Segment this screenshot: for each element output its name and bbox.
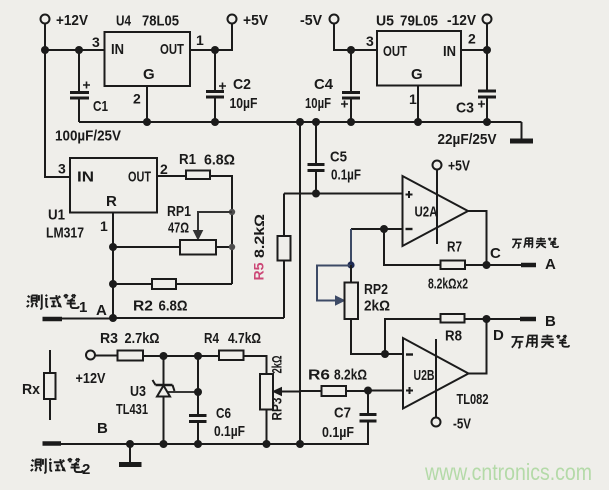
wire blue node to RP2: [350, 265, 352, 282]
svg-text:0.1µF: 0.1µF: [331, 167, 361, 184]
svg-text:C5: C5: [330, 149, 347, 166]
svg-text:C7: C7: [334, 405, 351, 422]
svg-text:C: C: [490, 245, 501, 262]
wire U2A inverting input: [351, 228, 403, 230]
node junction at +12V rail: [41, 46, 49, 54]
svg-text:C6: C6: [216, 405, 231, 422]
svg-text:OUT: OUT: [128, 169, 151, 186]
svg-text:79L05: 79L05: [400, 13, 438, 30]
svg-text:U5: U5: [376, 13, 394, 30]
svg-text:+12V: +12V: [76, 370, 106, 387]
wire +12V to U4 IN: [45, 49, 105, 51]
node C2 rail: [211, 118, 219, 126]
regulator U4 78L05: [92, 13, 204, 107]
node R8 feedback tap: [381, 350, 389, 358]
probe bar B: [520, 317, 536, 322]
capacitor C7: [300, 391, 377, 445]
node R pin RP1: [109, 243, 117, 251]
node feedback tap: [380, 225, 388, 233]
resistor R8: [441, 314, 465, 345]
terminal -5V U2B: [432, 416, 472, 433]
svg-text:2: 2: [133, 91, 141, 107]
node U3 ref C6: [194, 388, 202, 396]
capacitor C3: [438, 50, 497, 148]
label 万用表笔 A row: [512, 237, 558, 247]
svg-text:1: 1: [409, 91, 417, 107]
svg-text:R3: R3: [100, 330, 118, 347]
svg-text:U2A: U2A: [415, 204, 438, 221]
svg-text:Rx: Rx: [22, 381, 41, 398]
wire U2A power pin: [436, 170, 438, 245]
svg-text:C1: C1: [93, 98, 108, 115]
svg-text:B: B: [545, 313, 556, 330]
svg-text:R4: R4: [204, 330, 220, 347]
node C5 bottom: [312, 190, 320, 198]
svg-text:C2: C2: [233, 76, 251, 93]
resistor R7: [428, 239, 468, 293]
label 万用表笔 B row: [511, 335, 569, 348]
svg-text:3: 3: [366, 33, 374, 49]
ground symbol top right: [510, 122, 533, 141]
svg-text:A: A: [545, 256, 556, 273]
capacitor C4: [305, 50, 360, 122]
node rail bottom: [296, 440, 304, 448]
svg-text:1: 1: [100, 218, 108, 234]
wire R8 right to node D: [465, 318, 487, 320]
svg-text:3: 3: [92, 34, 100, 50]
node A: [109, 314, 117, 322]
svg-text:OUT: OUT: [383, 43, 407, 60]
wire +12V to R3: [95, 355, 118, 357]
node blue junction: [347, 261, 354, 268]
node C1 top: [75, 46, 83, 54]
wire U1 OUT to R1: [157, 175, 186, 177]
svg-text:R5: R5: [251, 262, 267, 280]
svg-text:B: B: [97, 420, 108, 437]
capacitor C1: [55, 50, 121, 145]
svg-text:2: 2: [468, 31, 476, 47]
node RP1 right: [229, 244, 235, 250]
svg-text:A: A: [96, 302, 107, 319]
node D: [483, 315, 491, 323]
op-amp U2B: [403, 338, 469, 409]
wire U4 G pin to rail: [146, 86, 148, 122]
svg-text:C4: C4: [314, 76, 334, 93]
svg-text:0.1µF: 0.1µF: [214, 423, 245, 440]
svg-text:G: G: [143, 66, 155, 83]
ground rail horizontal: [79, 121, 522, 123]
wire U2B power pin: [435, 339, 437, 418]
node U4 G rail: [143, 118, 151, 126]
svg-text:R6: R6: [308, 367, 330, 384]
wire feedback down to R7: [384, 229, 441, 265]
svg-text:D: D: [493, 327, 504, 344]
potentiometer RP2: [345, 281, 391, 319]
svg-text:78L05: 78L05: [142, 13, 179, 30]
svg-text:-12V: -12V: [447, 12, 476, 29]
test pen 1 probe bar: [43, 317, 63, 322]
node C4 rail: [347, 118, 355, 126]
node C3 top: [483, 46, 491, 54]
svg-text:47Ω: 47Ω: [168, 220, 189, 237]
wire U5 IN to -12V: [461, 24, 487, 51]
svg-text:R7: R7: [447, 239, 462, 256]
svg-text:RP1: RP1: [167, 203, 191, 220]
svg-text:2.7kΩ: 2.7kΩ: [125, 330, 160, 347]
wire -5V to U5 OUT: [334, 24, 377, 51]
terminal +12V bottom: [76, 351, 106, 388]
node U3 rail: [160, 440, 168, 448]
svg-text:R: R: [106, 193, 117, 210]
svg-text:6.8Ω: 6.8Ω: [204, 152, 235, 169]
wire RP1 left to R pin: [113, 246, 180, 248]
bottom rail: [60, 443, 368, 445]
svg-text:22µF/25V: 22µF/25V: [438, 131, 497, 148]
wire inv input to RP2 top: [350, 229, 352, 265]
wire R4 to RP3: [244, 356, 267, 374]
wire RP3 bottom to rail: [266, 410, 268, 445]
svg-text:10µF: 10µF: [305, 95, 331, 112]
node U5 G rail: [414, 118, 422, 126]
node U3 top: [160, 352, 168, 360]
label 测试笔1: [27, 294, 88, 316]
wire node D to probe B: [487, 318, 521, 320]
resistor R5 vertical: [278, 194, 291, 319]
capacitor C5: [308, 122, 362, 194]
svg-text:+12V: +12V: [56, 12, 88, 29]
RP2 wiper arrow: [317, 266, 351, 306]
potentiometer RP3: [260, 374, 273, 410]
node RP1 wiper tap: [229, 209, 235, 215]
node rail top: [296, 118, 304, 126]
svg-text:1: 1: [79, 299, 87, 316]
svg-text:6.8Ω: 6.8Ω: [159, 298, 188, 315]
node C4 top: [347, 46, 355, 54]
node C6 top: [194, 352, 202, 360]
op-amp U2A: [403, 176, 469, 246]
wire +12V vertical to U1 pin3: [45, 24, 70, 178]
ground symbol bottom: [119, 444, 142, 465]
node ground stub: [126, 440, 134, 448]
wire RP1 right: [216, 246, 232, 248]
svg-text:IN: IN: [443, 43, 456, 60]
wire R1 right down: [210, 176, 232, 284]
svg-text:TL082: TL082: [457, 391, 489, 408]
node C7 top: [364, 387, 372, 395]
svg-text:RP3: RP3: [269, 397, 285, 420]
wire U2B output: [469, 319, 487, 374]
svg-text:IN: IN: [111, 41, 124, 58]
shunt reference U3 TL431: [116, 356, 198, 444]
svg-text:R2: R2: [133, 298, 153, 315]
wire RP2 bottom to U2B inv: [351, 319, 403, 354]
wire noninverting line U2A: [284, 193, 403, 195]
terminal -12V: [447, 12, 492, 29]
svg-text:100µF/25V: 100µF/25V: [55, 128, 121, 145]
terminal +12V top: [41, 12, 89, 29]
terminal +5V: [228, 12, 269, 29]
svg-text:IN: IN: [77, 169, 94, 186]
svg-text:+5V: +5V: [448, 158, 470, 175]
svg-text:-5V: -5V: [300, 12, 322, 29]
wire U1 R pin down to A: [112, 213, 114, 319]
svg-text:3: 3: [58, 161, 66, 177]
svg-text:4.7kΩ: 4.7kΩ: [228, 330, 261, 347]
svg-text:R8: R8: [445, 328, 462, 345]
RP3 wiper arrow: [273, 388, 300, 396]
svg-text:0.1µF: 0.1µF: [322, 424, 354, 441]
svg-text:2: 2: [82, 461, 90, 478]
svg-text:10µF: 10µF: [230, 95, 258, 112]
resistor Rx: [22, 350, 56, 420]
capacitor C2: [206, 50, 258, 122]
svg-text:U2B: U2B: [414, 367, 435, 384]
resistor R1: [179, 151, 235, 179]
wire U5 G pin to rail: [417, 86, 419, 123]
node RP3 rail: [263, 440, 271, 448]
node C3 rail: [483, 118, 491, 126]
resistor R3: [100, 330, 160, 361]
wire U4 OUT to +5V: [190, 24, 232, 51]
node C6 rail: [194, 440, 202, 448]
node C2 top: [211, 46, 219, 54]
RP1 wiper arrow: [194, 212, 233, 240]
regulator U5 79L05: [366, 13, 476, 108]
long vertical rail: [299, 122, 301, 444]
svg-text:LM317: LM317: [46, 225, 84, 242]
wire feedback up to R8: [385, 319, 441, 354]
terminal -5V: [300, 12, 339, 29]
svg-text:2: 2: [160, 161, 168, 177]
svg-text:RP2: RP2: [364, 281, 388, 298]
capacitor C6: [189, 356, 245, 444]
svg-text:8.2kΩ: 8.2kΩ: [334, 367, 367, 384]
wire U2A output: [468, 211, 487, 265]
svg-text:1: 1: [196, 32, 204, 48]
wire R7 right to node C: [465, 264, 487, 266]
svg-text:G: G: [411, 66, 423, 83]
wire U2B noninverting input: [368, 390, 403, 392]
svg-text:C3: C3: [456, 100, 474, 117]
node C: [483, 261, 491, 269]
wire node A line: [61, 317, 284, 320]
resistor R4: [204, 330, 261, 360]
resistor R6: [300, 367, 368, 397]
resistor R2: [113, 279, 232, 315]
test pen 2 probe bar: [43, 441, 62, 446]
potentiometer RP1: [167, 203, 216, 255]
svg-text:8.2kΩ: 8.2kΩ: [251, 214, 267, 258]
svg-text:OUT: OUT: [160, 41, 184, 58]
svg-text:U4: U4: [116, 13, 132, 30]
node R2 left: [109, 280, 117, 288]
regulator U1 LM317: [46, 158, 168, 242]
svg-text:+5V: +5V: [243, 12, 268, 29]
svg-text:U3: U3: [130, 383, 146, 400]
svg-text:www.cntronics.com: www.cntronics.com: [424, 459, 592, 485]
svg-text:U1: U1: [48, 207, 65, 224]
label 测试笔2: [31, 458, 91, 478]
svg-text:8.2kΩx2: 8.2kΩx2: [428, 276, 468, 293]
svg-text:R1: R1: [179, 151, 196, 168]
wire R3 to R4: [143, 355, 219, 357]
probe bar A: [521, 263, 536, 268]
svg-text:2kΩ: 2kΩ: [269, 356, 285, 374]
svg-text:2kΩ: 2kΩ: [364, 298, 390, 315]
wire node C to probe A: [487, 264, 522, 266]
node C5 rail: [312, 118, 320, 126]
terminal +5V U2A: [433, 158, 471, 175]
svg-text:TL431: TL431: [116, 401, 148, 418]
svg-text:-5V: -5V: [453, 416, 471, 433]
